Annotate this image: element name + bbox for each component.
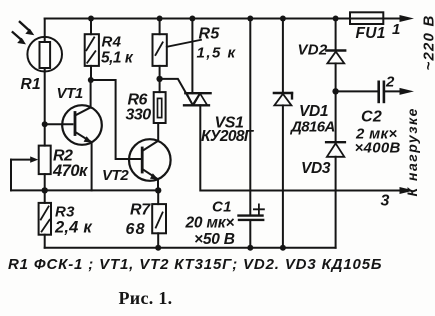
diode VD3 [326,142,345,157]
node bottom rail / C1 [247,245,253,251]
R5 pointer line [167,40,201,47]
resistor R5 [153,19,167,79]
svg-text:VD3: VD3 [301,160,331,177]
svg-text:2,4 к: 2,4 к [54,219,93,237]
svg-text:5,1 к: 5,1 к [101,50,134,67]
svg-text:×50 В: ×50 В [194,231,235,248]
wire C1 column [249,19,251,215]
svg-text:1: 1 [392,21,401,38]
terminal 1 arrow [400,15,415,22]
svg-text:1,5 к: 1,5 к [197,45,237,62]
terminal 2 arrow [400,88,415,95]
node R1/R2/VT1-base junction [42,121,48,127]
capacitor C1 [239,204,264,247]
svg-text:~220 В: ~220 В [421,15,435,71]
node bottom rail / R7 [155,245,161,251]
light arrow 2 [13,32,26,44]
svg-text:VD1: VD1 [299,103,328,120]
svg-text:×400В: ×400В [355,140,401,157]
node top rail / C1 [247,16,253,22]
wire node A to VD3 [335,91,337,141]
node top rail / VD2 [333,16,339,22]
variable resistor R2 [11,146,51,191]
wire VT1 emitter down [91,142,93,190]
wire R1 column top [44,19,46,37]
svg-text:R1 ФСК-1 ; VT1, VT2 КТ315Г; VD: R1 ФСК-1 ; VT1, VT2 КТ315Г; VD2. VD3 КД1… [8,256,382,273]
node top rail / VS1 anode [189,16,195,22]
wire emitter bus [11,189,158,191]
transistor VT1 [62,105,102,145]
fuse FU1 [350,12,383,24]
wire VS1 anode [191,19,193,94]
wire VT1 base [45,123,73,125]
resistor R3 [39,190,51,247]
node top rail / VD1 [280,16,286,22]
capacitor C2 [336,82,400,102]
svg-text:470к: 470к [52,162,89,180]
wire bottom rail [45,247,336,249]
wire R1 bottom to R2 [44,71,46,145]
light arrow 1 [20,22,35,35]
wire VD2 column top [335,19,337,50]
resistor R7 [152,190,166,247]
node R4 / VT1 collector / VT2 base [88,77,94,83]
svg-text:VT2: VT2 [102,167,129,184]
wire VT1 collector to R4 node [90,80,92,108]
wire VD1 column top [282,19,284,92]
terminal 3 arrow [400,187,415,194]
svg-text:Д816А: Д816А [289,119,335,136]
node VT2 emitter / R7 [155,187,161,193]
wire VS1 gate [160,79,192,103]
svg-text:КУ208Г: КУ208Г [201,128,255,145]
photoresistor R1 [27,37,62,72]
node top rail / R4 [88,16,94,22]
wire R4 node to VT2 base [91,80,141,159]
svg-text:68: 68 [126,221,146,238]
wire top rail [45,18,400,20]
svg-text:20 мк×: 20 мк× [185,215,235,232]
svg-text:VT1: VT1 [57,85,83,102]
node bottom rail / VD1 [280,245,286,251]
wire terminal-3 line from VS1 cathode [200,105,400,190]
svg-text:R7: R7 [130,202,151,219]
svg-text:2: 2 [385,74,395,91]
svg-text:3: 3 [381,193,390,210]
transistor VT2 [129,139,171,181]
node R5 / R6 / VS1 gate [156,76,162,82]
wire VD3 to bottom rail [335,157,337,248]
wire VD2 to node A [335,63,337,91]
svg-text:VD2: VD2 [298,42,328,59]
svg-text:R5: R5 [199,26,221,43]
svg-text:R4: R4 [102,34,122,51]
node R2/R3/bus [42,187,48,193]
resistor R4 [85,19,99,81]
wire VT2 emitter down [157,179,159,190]
svg-text:R1: R1 [21,76,41,93]
svg-text:FU1: FU1 [356,25,386,42]
wire VD1 column bottom [282,105,284,247]
node A: VD2/VD3/C2 [332,88,338,94]
svg-text:К нагрузке: К нагрузке [404,107,420,196]
resistor R6 [154,79,166,141]
zener diode VD1 [274,93,292,105]
node top rail / R5 [157,16,163,22]
diode VD2 [326,51,345,64]
svg-text:C1: C1 [212,199,232,216]
svg-text:330: 330 [126,107,152,124]
thyristor VS1 [184,93,211,105]
svg-text:C2: C2 [361,109,382,126]
svg-text:Рис. 1.: Рис. 1. [119,288,173,308]
